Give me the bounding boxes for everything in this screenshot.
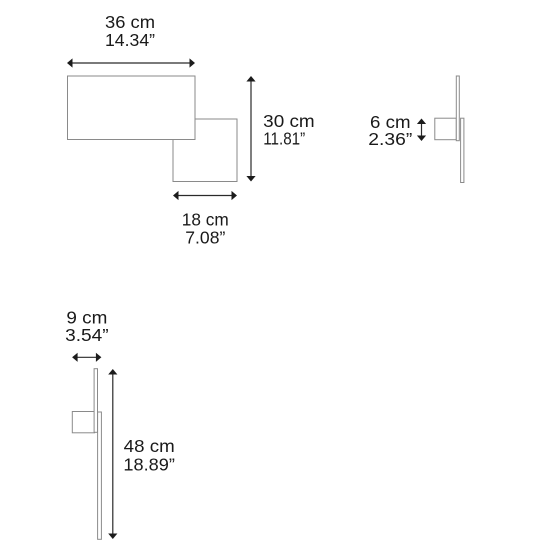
side view B: wall bracket box (9 cm total depth) xyxy=(72,412,94,433)
svg-text:18 cm: 18 cm xyxy=(182,209,229,229)
side view B: small panel edge (back strip) xyxy=(94,369,97,433)
svg-text:14.34”: 14.34” xyxy=(105,30,155,50)
svg-text:48 cm: 48 cm xyxy=(124,436,175,456)
front view: small square panel (18 cm) xyxy=(173,119,237,182)
dimension arrow 48 cm (vertical, right of side view B) xyxy=(108,369,117,539)
svg-text:7.08”: 7.08” xyxy=(185,227,225,247)
dimension arrow 36 cm (horizontal, top) xyxy=(67,58,195,67)
side view A: wall bracket box (6 cm deep) xyxy=(435,118,457,140)
dimension arrow 6 cm (vertical, left of bracket) xyxy=(417,119,426,142)
svg-text:3.54”: 3.54” xyxy=(65,325,109,345)
svg-text:18.89”: 18.89” xyxy=(123,454,175,474)
dimension arrow 9 cm (horizontal, above side view B) xyxy=(72,353,101,362)
svg-text:11.81”: 11.81” xyxy=(263,129,305,149)
side view B: large panel edge (front strip, vertical 48 cm) xyxy=(98,412,102,539)
dimension arrow 30 cm (vertical, right of front view) xyxy=(246,76,255,182)
side view A: small panel edge (front plate) xyxy=(461,118,464,182)
svg-text:2.36”: 2.36” xyxy=(368,129,412,149)
front view: large rectangle panel (36 cm) xyxy=(68,76,196,140)
dimension arrow 18 cm (horizontal, below small square) xyxy=(173,191,237,200)
side view A: large panel edge (back plate) xyxy=(456,76,459,141)
